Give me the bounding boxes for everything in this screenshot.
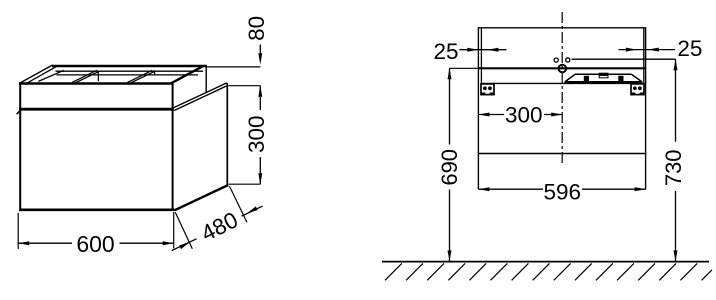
dim 80 extension line top	[207, 66, 261, 68]
dim 80 leader above	[259, 45, 261, 61]
hole reference line	[572, 58, 676, 60]
svg-text:80: 80	[244, 16, 269, 41]
dim 480 line lower-left segment	[172, 239, 197, 251]
svg-text:690: 690	[437, 149, 462, 186]
left wall bracket	[481, 84, 494, 95]
frame right wall top inner edge	[168, 66, 202, 84]
frame left wall top inner edge	[25, 67, 57, 85]
label 300 (left view)	[244, 115, 269, 153]
label 80	[244, 16, 269, 41]
svg-text:25: 25	[433, 39, 458, 64]
floor line	[382, 261, 709, 263]
cabinet outline right edge	[645, 27, 647, 189]
floor hatching	[385, 263, 712, 280]
rail left slope	[565, 75, 575, 82]
dim 25 left	[433, 39, 506, 64]
drawer top line	[481, 82, 644, 84]
frame right wall top outer edge	[173, 65, 206, 83]
crossed circle drain reference	[559, 65, 567, 73]
centerline	[561, 12, 563, 166]
dim 480	[172, 186, 263, 250]
dim 25 right	[619, 36, 703, 61]
frame bottom thick edge	[19, 108, 174, 111]
body back-right vertical edge	[226, 83, 228, 185]
label 600	[76, 231, 114, 257]
dim 300 line upper segment	[259, 86, 261, 110]
divider 2	[128, 70, 155, 83]
dim 600 line right segment	[120, 242, 174, 244]
divider 1	[72, 70, 99, 83]
dim 600 extension line left	[17, 213, 19, 249]
svg-text:730: 730	[661, 149, 686, 186]
frame back-right vertical edge	[205, 65, 207, 92]
dim 80 extension line bottom	[228, 85, 260, 87]
mounting rail top line (thick)	[478, 67, 645, 69]
dim 300 arrow down	[258, 173, 262, 184]
dim 600 line left segment	[18, 242, 72, 244]
dim 600 arrow right	[163, 241, 174, 245]
frame bottom left tick	[17, 110, 21, 114]
rail trapezoid	[565, 74, 643, 82]
rail top edge	[575, 73, 632, 75]
dim 80 arrow down	[258, 53, 262, 65]
dim 690	[437, 68, 478, 261]
tray floor left edge	[38, 70, 63, 81]
cabinet outline top edge	[478, 27, 645, 29]
body bottom edge	[19, 209, 174, 212]
right wall bracket	[631, 84, 644, 95]
svg-text:25: 25	[677, 36, 702, 61]
dim 600 arrow left	[18, 241, 29, 245]
dim 480 arrow lower-left	[179, 242, 190, 250]
dim 300 extension line bottom	[228, 183, 260, 185]
dim 80 arrow up (300 top arrow)	[258, 86, 262, 97]
mounting hole left	[554, 58, 558, 62]
cabinet bottom edge	[478, 153, 647, 155]
dim 730	[661, 59, 686, 261]
mounting hole right	[566, 58, 570, 62]
frame front-top edge	[19, 82, 174, 85]
front-right vertical edge	[172, 82, 174, 210]
left hole extension vertical	[480, 29, 482, 84]
dim 480 extension line front	[175, 212, 192, 249]
dim 596	[478, 180, 645, 205]
svg-text:600: 600	[76, 231, 114, 257]
dim 480 extension line back	[230, 186, 247, 222]
rail clip left	[584, 76, 589, 81]
svg-text:596: 596	[544, 180, 582, 205]
dim 600 extension line right	[173, 212, 175, 249]
rail bottom thick edge	[565, 81, 643, 83]
dim 600	[18, 212, 174, 249]
rail center notch	[599, 73, 608, 78]
dim 300 line lower segment	[259, 157, 261, 184]
rail right slope	[632, 75, 642, 82]
dim 480 arrow upper-right	[246, 206, 257, 214]
svg-text:300: 300	[505, 102, 543, 127]
dim 480 line upper-right segment	[242, 206, 263, 216]
body top-right depth edge inner	[174, 85, 228, 110]
svg-text:300: 300	[244, 115, 269, 153]
cabinet outline left edge	[477, 27, 479, 189]
right hole extension vertical	[643, 29, 645, 85]
rail clip right	[618, 76, 623, 81]
tray floor back edge	[57, 74, 199, 76]
dim 300 (right view)	[478, 102, 562, 127]
frame back wall top edge	[52, 65, 207, 67]
body bottom-right depth edge	[175, 185, 229, 210]
label 480	[197, 207, 242, 246]
body top-right depth edge outer	[174, 83, 227, 108]
front-left vertical edge	[19, 82, 21, 211]
frame left wall top outer edge	[20, 65, 53, 83]
frame back wall inner edge	[56, 70, 204, 72]
